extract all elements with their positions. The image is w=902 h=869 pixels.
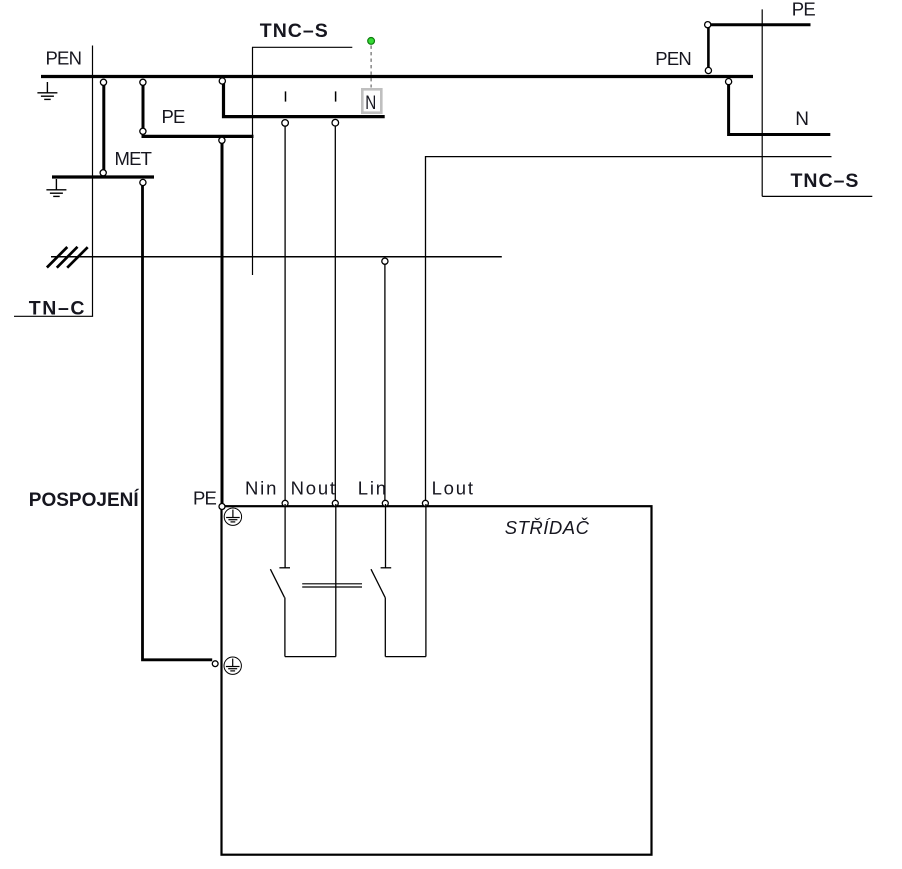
svg-text:N: N [795,109,809,130]
svg-text:MET: MET [115,148,152,169]
node junction below PEN bus end (N takeoff) [726,79,732,85]
svg-text:Nout: Nout [291,477,337,498]
wire L line (hatched, incoming mains) [51,256,502,258]
node junction under N bus (Nout) [332,119,339,126]
wire Lout vertical and horizontal run to the right [426,157,832,503]
svg-text:TNC–S: TNC–S [260,20,329,42]
wire MET bar [52,175,154,178]
svg-text:PE: PE [193,488,217,509]
node junction under N bus (Nin) [282,120,289,127]
hatch slash 2 [57,247,78,268]
node junction above MET bar [100,170,106,176]
wire TNC-S (left) label underline [252,46,352,48]
node terminal Lout on box top [422,500,428,506]
wire N drop (right) [729,85,831,135]
node junction below MET bar [140,179,146,185]
wire TNC-S (right) boundary vertical [761,9,763,196]
node terminal Nin on box top [282,500,288,506]
open link contact tick (N bus, x=285.5) [285,91,287,101]
node terminal Nout on box top [332,500,338,506]
node reference point green dot [368,38,375,45]
svg-text:PEN: PEN [655,48,691,69]
switch L pole: open blade [371,569,385,597]
switch L pole: fixed contact lead [385,504,387,568]
wire TN-C label underline [14,315,93,317]
svg-text:TN–C: TN–C [29,297,86,319]
wire PEN-to-N-bus drop [224,83,385,117]
wire PEN-to-MET drop [102,81,105,171]
open link contact tick (N bus, x=335.6) [335,91,337,101]
node junction on PEN bus (x=222) [219,78,225,84]
wire N switch U-bottom [285,656,336,658]
label N box (gray-framed) [362,89,381,112]
switch N pole: moving lead down [284,597,286,656]
switch N pole: contact T-bar [279,567,290,569]
ground symbol (under MET bar) [46,179,66,196]
node junction on PEN bus (x=104) [100,79,106,85]
wire Nout vertical [334,126,336,503]
wire Nin vertical [284,126,286,503]
box STRIDAC inverter outline [222,506,652,855]
node junction below PE bar [219,137,225,143]
node junction on L line (Lin tap) [382,258,388,264]
protective earth symbol (lower, on box left edge) [224,657,241,674]
ground symbol (left, under PEN bus) [37,82,57,99]
svg-text:N: N [365,92,376,114]
wire PEN bus [41,75,753,78]
node open terminal end of POSPOJENI wire [212,661,218,667]
svg-text:Nin: Nin [245,477,278,498]
wire POSPOJENI riser from MET bar [143,186,213,660]
node terminal Lin on box top [382,500,388,506]
node PE terminal circle at box corner [219,504,225,510]
protective earth symbol (top, inside box) [224,508,241,525]
svg-text:STŘÍDAČ: STŘÍDAČ [505,517,590,538]
wire PEN-to-PE drop [142,81,145,130]
wire PE line (right) [708,23,811,26]
svg-text:PE: PE [162,106,186,127]
svg-text:POSPOJENÍ: POSPOJENÍ [29,489,140,511]
wire PE bar [142,135,254,138]
svg-text:Lout: Lout [432,477,475,498]
switch L pole: contact T-bar [381,567,392,569]
hatch slash 3 [67,247,88,268]
wire PE riser to inverter [221,142,224,505]
svg-text:Lin: Lin [358,477,388,498]
node junction above PE bar [140,128,146,134]
node junction on PEN bus (right) [705,67,711,73]
wire TNC-S (right) label underline [762,195,872,197]
node open terminal on PE line left end [705,22,711,28]
wire Lin vertical [384,264,386,503]
svg-text:TNC–S: TNC–S [791,170,860,192]
wire Lout return up [425,504,427,657]
switch N pole: open blade [270,569,284,597]
wire L switch U-bottom [385,656,426,658]
wire dashed leader from green dot to N box [370,46,372,88]
switch N pole: fixed contact lead [284,504,286,568]
mechanical linkage between switch poles [302,583,362,585]
wire TNC-S (left) boundary vertical [252,47,254,275]
svg-text:PE: PE [792,0,816,20]
svg-text:PEN: PEN [46,47,82,68]
wire Nout return up [335,504,337,657]
hatch slash 1 [47,247,67,268]
wire PE drop to PEN bus (right) [707,28,710,69]
switch L pole: moving lead down [384,597,386,656]
wire TN-C boundary vertical [92,46,94,317]
node junction on PEN bus (x=143) [140,79,146,85]
